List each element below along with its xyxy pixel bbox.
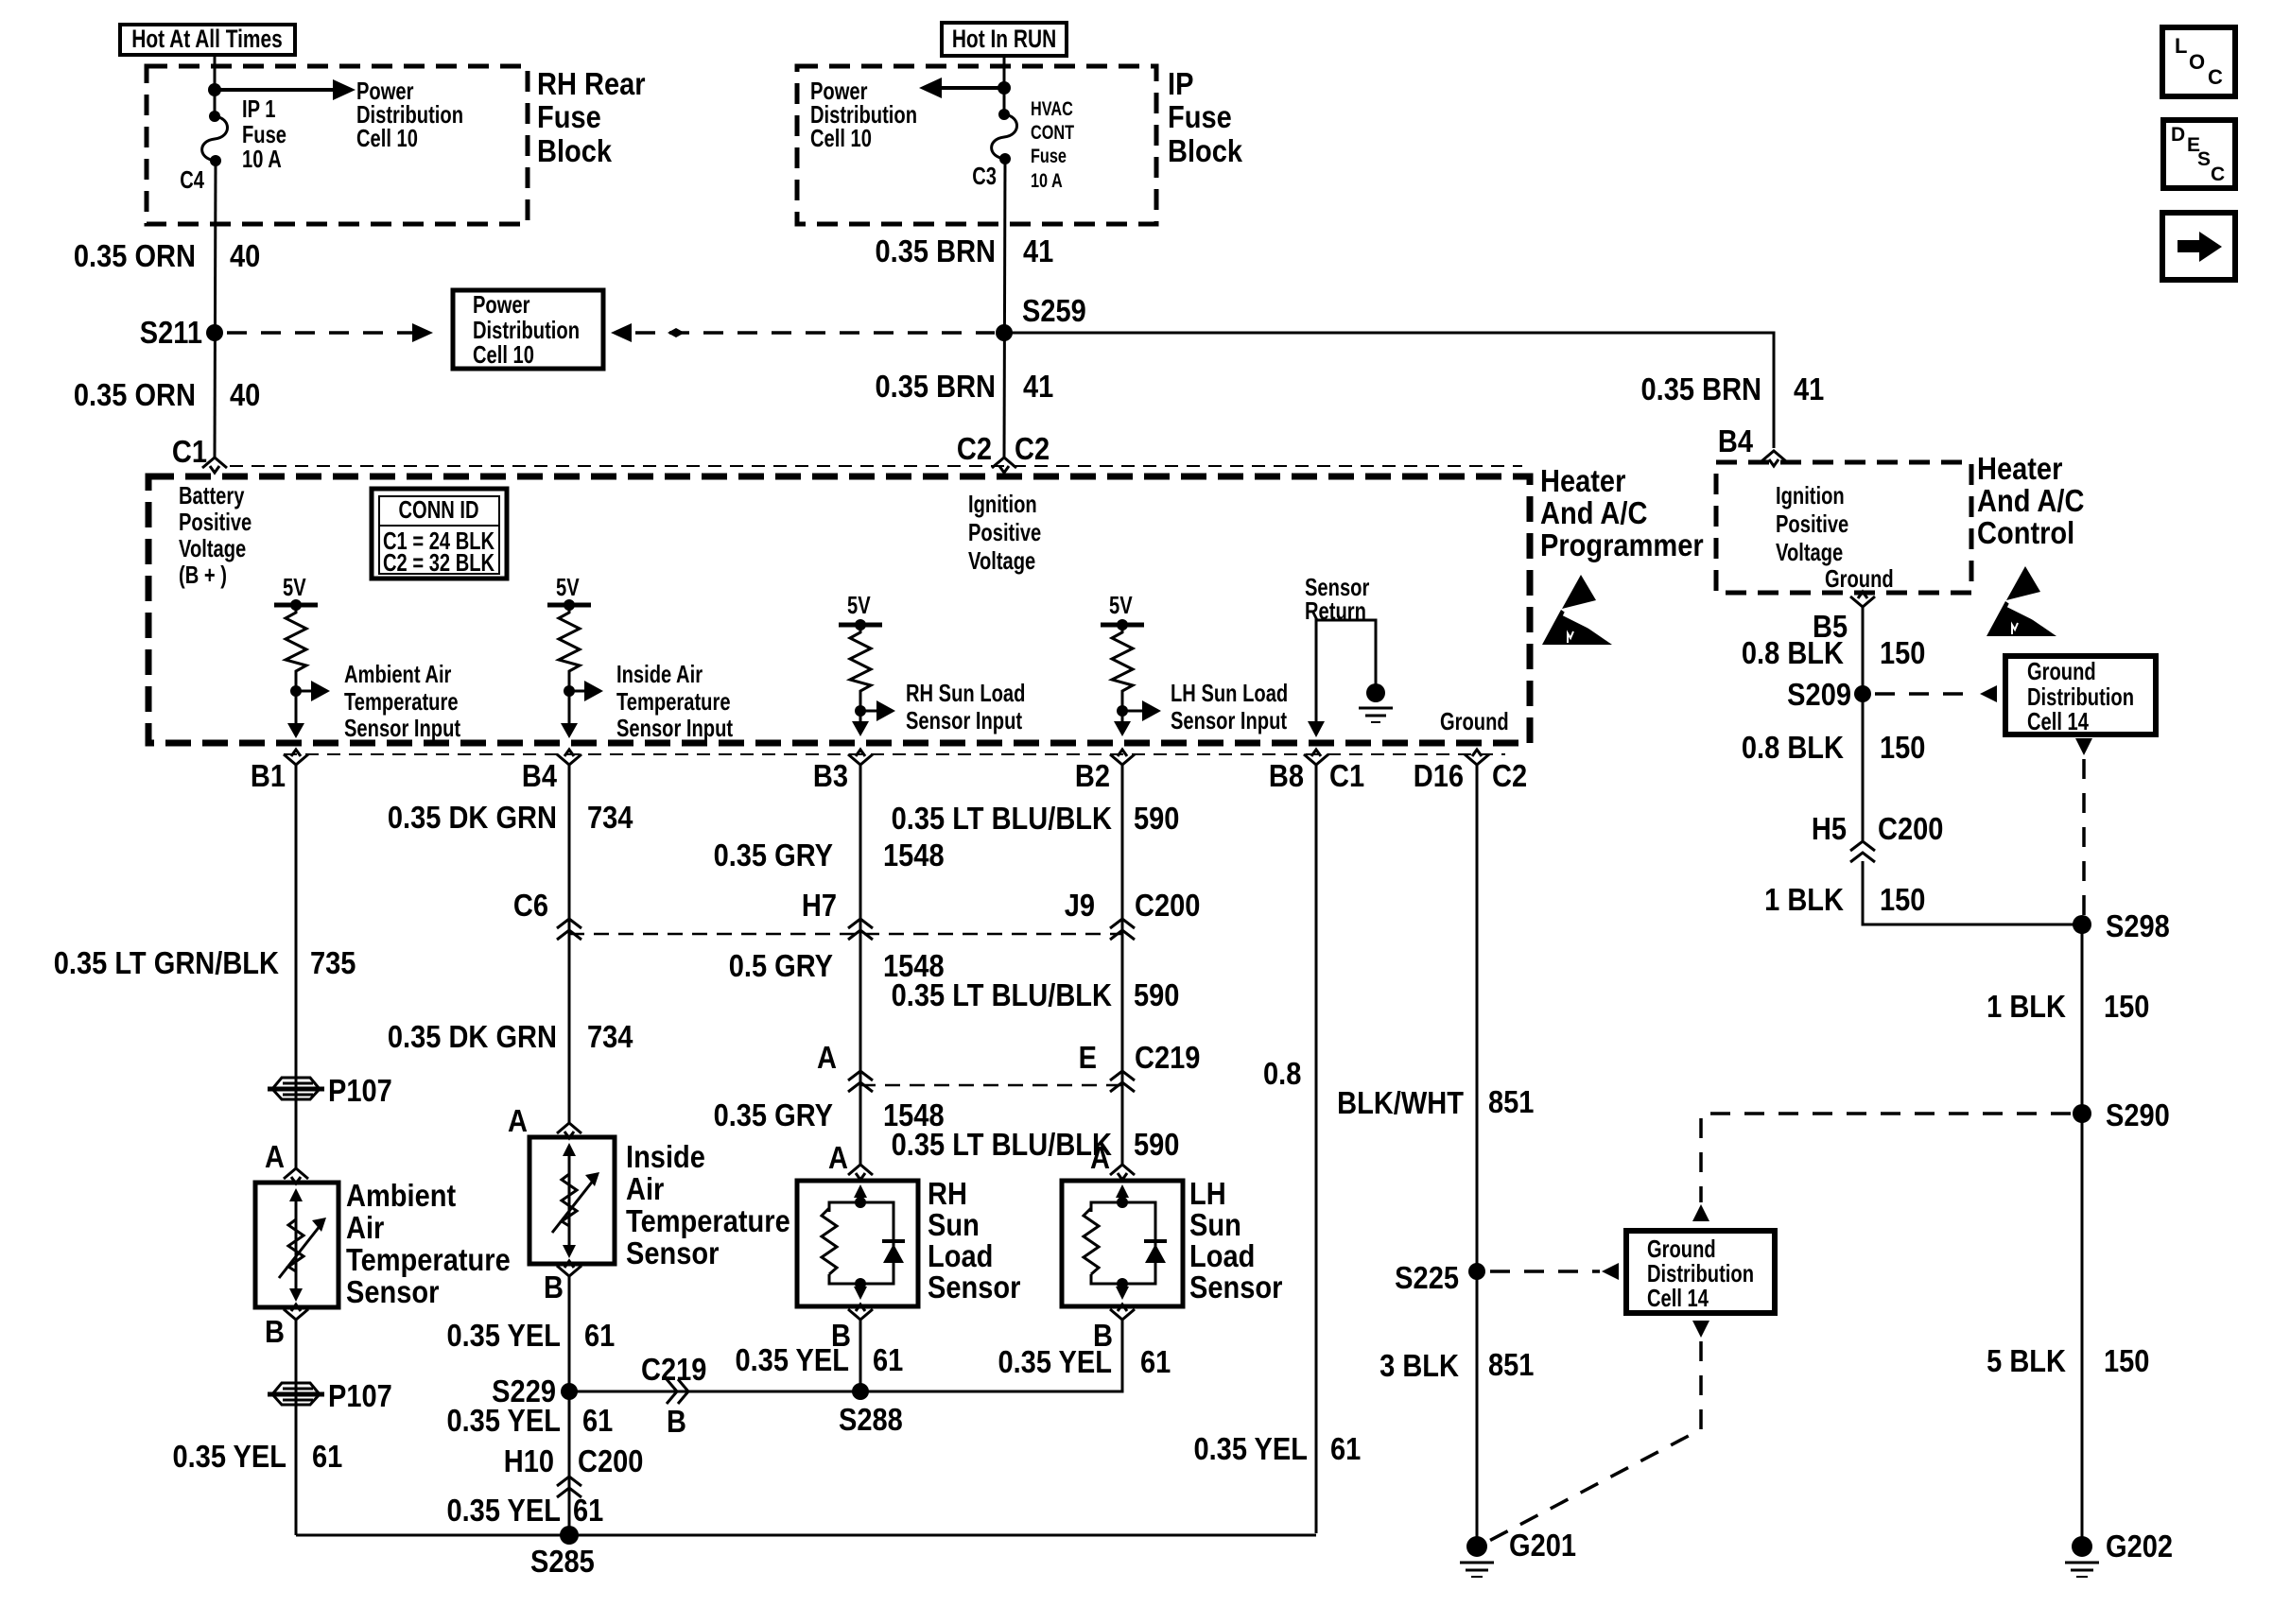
svg-text:C1: C1: [1329, 758, 1364, 793]
Heater And A/C Control dashed box: [1716, 462, 1971, 593]
svg-text:Block: Block: [537, 133, 613, 168]
arrow below upper ground distribution box: [2075, 738, 2092, 755]
svg-text:Power: Power: [473, 291, 529, 319]
svg-text:5V: 5V: [283, 574, 306, 601]
svg-text:Hot In RUN: Hot In RUN: [952, 26, 1056, 54]
connector D16: [1465, 750, 1489, 765]
svg-text:C: C: [2211, 164, 2225, 185]
label "IP Fuse Block": [1168, 66, 1243, 168]
wire inside-air B down to S229/S285: [568, 1274, 571, 1535]
svg-text:5 BLK: 5 BLK: [1987, 1343, 2066, 1378]
svg-text:41: 41: [1023, 369, 1053, 404]
svg-text:150: 150: [1880, 882, 1925, 917]
connector B3: [848, 750, 873, 765]
svg-text:RH Rear: RH Rear: [537, 66, 646, 101]
svg-text:Heater: Heater: [1977, 451, 2062, 486]
DESC button box: [2163, 120, 2235, 188]
wire RH B down to S288: [859, 1318, 862, 1391]
svg-text:Positive: Positive: [968, 519, 1041, 546]
label Inside Air Temperature Sensor: [626, 1139, 790, 1270]
wire to pin with arrow: [287, 691, 304, 738]
svg-text:P107: P107: [328, 1378, 392, 1413]
svg-text:Block: Block: [1168, 133, 1243, 168]
connector C2: [992, 458, 1016, 473]
svg-text:Sensor: Sensor: [626, 1235, 719, 1270]
wire label 0.35 LT BLU/BLK 590 (lower): [892, 1127, 1180, 1162]
svg-text:Sensor Input: Sensor Input: [344, 715, 460, 742]
svg-text:61: 61: [584, 1318, 615, 1353]
svg-text:S209: S209: [1787, 677, 1851, 712]
svg-text:61: 61: [573, 1493, 603, 1528]
wire label 0.35 YEL 61 (below S229): [446, 1403, 613, 1438]
svg-text:Fuse: Fuse: [1031, 145, 1067, 166]
svg-text:RH: RH: [928, 1176, 967, 1211]
wire LH B down and left: [860, 1318, 1122, 1391]
CONN ID table: [372, 489, 507, 579]
arrow above lower ground distribution box: [1692, 1204, 1709, 1221]
svg-text:Distribution: Distribution: [473, 317, 580, 344]
wire label 0.35 LT BLU/BLK 590 (mid): [892, 977, 1180, 1012]
svg-text:Cell 14: Cell 14: [2027, 708, 2089, 735]
wire B2 to LH sun load sensor: [1121, 763, 1124, 1166]
Sensor Return label: [1305, 574, 1369, 625]
wire fuse down to C2 connector: [1004, 159, 1005, 458]
svg-text:0.35 BRN: 0.35 BRN: [1641, 371, 1761, 406]
svg-text:A: A: [828, 1140, 848, 1175]
connector A (B3 wire): [817, 1040, 873, 1092]
svg-text:Sun: Sun: [928, 1207, 980, 1242]
svg-text:Programmer: Programmer: [1540, 527, 1704, 562]
ambient air temperature sensor: [255, 1139, 338, 1349]
RH Rear Fuse Block dashed box: [147, 66, 528, 224]
5V supply: [839, 592, 882, 631]
svg-text:Fuse: Fuse: [537, 99, 601, 134]
svg-text:61: 61: [312, 1439, 342, 1474]
svg-text:A: A: [265, 1139, 285, 1174]
svg-text:Ambient: Ambient: [346, 1178, 456, 1213]
svg-text:10 A: 10 A: [242, 146, 282, 173]
svg-text:1 BLK: 1 BLK: [1764, 882, 1844, 917]
label "Heater And A/C Programmer": [1540, 463, 1704, 562]
dashed reference S211 to Power Distribution box: [227, 323, 433, 342]
svg-text:40: 40: [230, 238, 260, 273]
splice S211: [140, 315, 223, 350]
sensor input arrow: [1122, 700, 1161, 721]
splice P107 (upper): [268, 1073, 392, 1108]
wire label 0.35 DK GRN 734 (lower): [388, 1019, 633, 1054]
label "Power Distribution Cell 10" (RH block): [356, 78, 463, 152]
wire right box ground down: [1862, 605, 1865, 840]
splice S285: [530, 1526, 595, 1579]
connector J9 / C200: [1065, 888, 1201, 940]
ESD symbol (control): [1987, 566, 2065, 636]
wire S298 down to G202: [2081, 924, 2084, 1541]
svg-text:Sensor: Sensor: [346, 1274, 439, 1309]
svg-text:0.8 BLK: 0.8 BLK: [1742, 635, 1845, 670]
sensor return wire: [1316, 620, 1376, 724]
label "Power Distribution Cell 10" (IP block): [810, 78, 917, 152]
svg-text:1 BLK: 1 BLK: [1987, 989, 2066, 1024]
svg-text:LH Sun Load: LH Sun Load: [1171, 680, 1288, 707]
svg-text:Temperature: Temperature: [616, 688, 731, 716]
pin labels C2 C2: [957, 431, 1050, 466]
connector B4: [1761, 451, 1786, 466]
ground symbol (sensor return): [1359, 683, 1393, 722]
svg-text:Positive: Positive: [179, 509, 252, 536]
connector B1: [284, 750, 308, 765]
5V supply: [274, 574, 318, 611]
svg-text:0.35 DK GRN: 0.35 DK GRN: [388, 1019, 557, 1054]
5V supply: [1101, 592, 1144, 631]
svg-text:BLK/WHT: BLK/WHT: [1337, 1085, 1464, 1120]
svg-text:S211: S211: [140, 315, 202, 350]
label LH Sun Load Sensor: [1189, 1176, 1282, 1304]
svg-text:Heater: Heater: [1540, 463, 1625, 498]
svg-text:Cell 10: Cell 10: [356, 125, 418, 152]
wire label 1 BLK 150: [1764, 882, 1925, 917]
svg-text:CONN ID: CONN ID: [398, 496, 478, 524]
svg-text:0.35 BRN: 0.35 BRN: [876, 233, 996, 268]
svg-text:0.35 GRY: 0.35 GRY: [714, 838, 834, 872]
ground G201: [1460, 1528, 1576, 1577]
ESD symbol (programmer): [1542, 575, 1621, 645]
svg-text:Sensor Input: Sensor Input: [1171, 707, 1287, 734]
wire fuse down to C1 connector: [215, 161, 216, 458]
connector C1: [202, 458, 227, 473]
svg-text:Temperature: Temperature: [346, 1242, 511, 1277]
wire label 0.35 BRN 41 (right drop): [1641, 371, 1825, 406]
LH sun load sensor: [1062, 1140, 1183, 1353]
connector H10 / C200: [504, 1443, 644, 1497]
svg-text:Ambient Air: Ambient Air: [344, 661, 451, 688]
svg-text:Ground: Ground: [1440, 708, 1509, 735]
svg-text:C2: C2: [1492, 758, 1527, 793]
svg-text:S259: S259: [1022, 293, 1086, 328]
label "RH Rear Fuse Block": [537, 66, 646, 168]
svg-text:150: 150: [1880, 635, 1925, 670]
svg-text:G201: G201: [1509, 1528, 1576, 1563]
svg-text:Air: Air: [626, 1171, 664, 1206]
svg-text:B: B: [544, 1270, 564, 1304]
label box "Hot At All Times": [120, 25, 295, 55]
wire from Hot In RUN into fuse block: [1003, 56, 1006, 114]
wire B8/C1 sensor return down: [1315, 763, 1318, 1533]
IP Fuse Block dashed box: [797, 66, 1156, 224]
dashed wire to G201: [1489, 1341, 1701, 1541]
svg-text:Fuse: Fuse: [1168, 99, 1232, 134]
svg-text:Sun: Sun: [1189, 1207, 1241, 1242]
svg-text:Cell 10: Cell 10: [473, 341, 534, 369]
wire to pin with arrow: [1114, 711, 1131, 736]
label box "Hot In RUN": [942, 23, 1067, 56]
svg-text:Distribution: Distribution: [2027, 683, 2134, 711]
wire label 0.35 YEL 61 (B8 bottom): [1193, 1431, 1361, 1466]
dashed wire down to S298: [2082, 759, 2086, 917]
svg-text:41: 41: [1023, 233, 1053, 268]
svg-text:B1: B1: [251, 758, 286, 793]
connector C219 / B (in-line): [641, 1352, 706, 1439]
svg-text:851: 851: [1488, 1347, 1534, 1382]
svg-text:590: 590: [1134, 1127, 1179, 1162]
svg-text:H5: H5: [1812, 811, 1847, 846]
svg-text:Ignition: Ignition: [968, 491, 1037, 518]
label "HVAC CONT Fuse 10 A": [1031, 97, 1075, 191]
svg-text:61: 61: [1140, 1344, 1171, 1379]
branch arrow to Power Distribution Cell 10: [215, 79, 356, 100]
svg-text:C2: C2: [1015, 431, 1050, 466]
svg-text:B: B: [667, 1404, 686, 1439]
connector H7: [802, 888, 873, 940]
svg-text:C6: C6: [513, 888, 548, 923]
svg-text:B4: B4: [1718, 423, 1754, 458]
svg-text:851: 851: [1488, 1084, 1534, 1119]
svg-text:C200: C200: [578, 1443, 643, 1478]
wire B3 to RH sun load sensor: [859, 763, 862, 1166]
svg-text:0.35 ORN: 0.35 ORN: [74, 377, 196, 412]
reference box Ground Distribution Cell 14 (lower): [1626, 1231, 1775, 1313]
svg-text:P107: P107: [328, 1073, 392, 1108]
svg-text:LH: LH: [1189, 1176, 1226, 1211]
C219 connector plane dashed line: [860, 1084, 1122, 1087]
svg-text:Sensor: Sensor: [1189, 1270, 1282, 1304]
wire label 0.8 BLK/WHT 851: [1263, 1056, 1534, 1120]
svg-text:S285: S285: [530, 1544, 595, 1579]
LOC button box: [2162, 27, 2235, 96]
svg-text:0.35 YEL: 0.35 YEL: [446, 1493, 561, 1528]
wire label 1 BLK 150 (second): [1987, 989, 2149, 1024]
wire label 0.35 BRN 41 (lower): [876, 369, 1054, 404]
svg-text:H10: H10: [504, 1443, 554, 1478]
wire label 0.35 YEL 61 (above S229): [446, 1318, 615, 1353]
fuse HVAC CONT Fuse 10 A: [992, 109, 1017, 164]
svg-text:0.35 LT GRN/BLK: 0.35 LT GRN/BLK: [54, 945, 280, 980]
svg-text:A: A: [817, 1040, 837, 1075]
svg-text:61: 61: [873, 1342, 903, 1377]
svg-text:C200: C200: [1135, 888, 1200, 923]
wire label 0.35 BRN 41 (upper): [876, 233, 1054, 268]
branch arrow (left) to Power Distribution: [919, 78, 1004, 98]
svg-text:S290: S290: [2106, 1097, 2170, 1132]
svg-text:E: E: [1079, 1040, 1097, 1075]
svg-text:5V: 5V: [1109, 592, 1133, 619]
wire label 5 BLK 150: [1987, 1343, 2149, 1378]
svg-text:C200: C200: [1878, 811, 1943, 846]
svg-text:735: 735: [310, 945, 356, 980]
svg-text:3 BLK: 3 BLK: [1379, 1348, 1459, 1383]
Heater And A/C Programmer dashed box: [148, 476, 1530, 743]
wire label 0.8 BLK 150 (lower): [1742, 730, 1926, 765]
svg-text:B4: B4: [522, 758, 558, 793]
connector B4: [557, 750, 581, 765]
ground G202: [2065, 1529, 2173, 1577]
RH sun load sensor: [797, 1140, 918, 1353]
svg-text:J9: J9: [1065, 888, 1095, 923]
svg-text:S288: S288: [839, 1402, 903, 1437]
splice S225: [1395, 1260, 1485, 1295]
svg-text:Voltage: Voltage: [1776, 539, 1843, 566]
connector plane thin dashed line (top): [230, 465, 1522, 467]
svg-text:590: 590: [1134, 977, 1179, 1012]
wire label 0.35 ORN 40 (upper): [74, 238, 260, 273]
splice S290: [2073, 1097, 2170, 1132]
svg-text:Air: Air: [346, 1210, 384, 1245]
svg-text:0.35 GRY: 0.35 GRY: [714, 1097, 834, 1132]
svg-text:Hot At All Times: Hot At All Times: [131, 26, 283, 54]
svg-text:C1: C1: [172, 434, 207, 469]
svg-text:5V: 5V: [556, 574, 580, 601]
svg-text:A: A: [1090, 1140, 1110, 1175]
wire B1 to ambient sensor: [295, 763, 298, 1169]
dashed reference S209 to ground distribution: [1875, 685, 1997, 702]
splice S259: [996, 293, 1086, 341]
svg-text:L: L: [2175, 34, 2187, 58]
svg-text:C2: C2: [957, 431, 992, 466]
svg-text:0.35 YEL: 0.35 YEL: [998, 1344, 1112, 1379]
svg-text:590: 590: [1134, 801, 1179, 836]
svg-text:0.8: 0.8: [1263, 1056, 1301, 1091]
svg-text:(B + ): (B + ): [179, 561, 227, 589]
svg-text:0.35 YEL: 0.35 YEL: [446, 1318, 561, 1353]
svg-text:Sensor: Sensor: [928, 1270, 1020, 1304]
wire D16/C2 ground down: [1476, 763, 1479, 1541]
label Ambient Air Temperature Sensor: [346, 1178, 511, 1309]
svg-text:Control: Control: [1977, 515, 2074, 550]
svg-text:O: O: [2189, 50, 2205, 74]
svg-text:Ignition: Ignition: [1776, 482, 1845, 510]
svg-text:0.8 BLK: 0.8 BLK: [1742, 730, 1845, 765]
svg-text:C3: C3: [972, 163, 997, 190]
wire ambient B down: [295, 1318, 298, 1535]
svg-text:61: 61: [582, 1403, 613, 1438]
svg-text:0.35 YEL: 0.35 YEL: [446, 1403, 561, 1438]
svg-text:B: B: [265, 1314, 285, 1349]
svg-text:0.35 YEL: 0.35 YEL: [735, 1342, 849, 1377]
wire label 0.35 YEL 61 (above S285): [446, 1493, 603, 1528]
junction node: [208, 83, 221, 96]
svg-text:And A/C: And A/C: [1977, 483, 2084, 518]
wire label 0.35 YEL 61 (RH B): [735, 1342, 903, 1377]
5V supply: [547, 574, 591, 611]
connector E / C219: [1079, 1040, 1201, 1092]
svg-text:Battery: Battery: [179, 482, 244, 510]
resistor element: [1112, 625, 1133, 711]
svg-text:Ground: Ground: [1825, 565, 1894, 593]
svg-text:G202: G202: [2106, 1529, 2173, 1564]
svg-text:Cell 14: Cell 14: [1647, 1285, 1709, 1312]
reference box Power Distribution Cell 10: [453, 290, 603, 369]
wire label 3 BLK 851: [1379, 1347, 1534, 1383]
svg-text:C: C: [2208, 65, 2223, 89]
svg-text:B3: B3: [813, 758, 848, 793]
svg-text:Temperature: Temperature: [626, 1203, 790, 1238]
svg-text:Ground: Ground: [2027, 658, 2096, 685]
connector plane thin dashed line (bottom): [284, 753, 1505, 755]
svg-text:S: S: [2197, 148, 2211, 170]
svg-text:Load: Load: [928, 1238, 993, 1273]
svg-text:150: 150: [2104, 989, 2149, 1024]
svg-text:1548: 1548: [883, 838, 945, 872]
fuse IP 1 Fuse 10 A: [202, 111, 228, 166]
label "Ignition Positive Voltage" (right box): [1776, 482, 1848, 566]
splice S298: [2073, 908, 2170, 943]
splice S229 and wire to C219: [569, 1391, 860, 1393]
svg-text:Load: Load: [1189, 1238, 1255, 1273]
svg-text:0.35 YEL: 0.35 YEL: [1193, 1431, 1308, 1466]
svg-text:Temperature: Temperature: [344, 688, 459, 716]
label RH Sun Load Sensor: [928, 1176, 1020, 1304]
svg-text:0.5 GRY: 0.5 GRY: [729, 948, 834, 983]
svg-text:0.35 YEL: 0.35 YEL: [172, 1439, 286, 1474]
svg-text:10 A: 10 A: [1031, 169, 1063, 191]
resistor element: [850, 625, 871, 711]
wire label 0.35 LT BLU/BLK 590 (top): [892, 801, 1180, 836]
svg-text:B8: B8: [1269, 758, 1304, 793]
svg-text:734: 734: [587, 1019, 633, 1054]
svg-text:Cell 10: Cell 10: [810, 125, 872, 152]
connector Ground (right box): [1850, 592, 1875, 607]
connector B8: [1304, 750, 1328, 765]
label "IP 1 Fuse 10 A": [242, 95, 286, 173]
svg-text:150: 150: [2104, 1343, 2149, 1378]
connector H5 / C200: [1812, 811, 1944, 862]
resistor element: [559, 605, 580, 691]
svg-text:And A/C: And A/C: [1540, 495, 1647, 530]
label "Ignition Positive Voltage" (middle): [968, 491, 1041, 575]
inside air temperature sensor: [508, 1103, 615, 1304]
dashed reference S259 to Power Distribution box with left arrow: [611, 323, 995, 342]
C200 connector plane dashed line: [569, 933, 1122, 936]
svg-text:0.35 BRN: 0.35 BRN: [876, 369, 996, 404]
svg-text:734: 734: [587, 800, 633, 835]
wire label 0.35 LT GRN/BLK 735: [54, 945, 356, 980]
svg-text:C4: C4: [180, 166, 204, 194]
svg-text:Sensor Input: Sensor Input: [616, 715, 733, 742]
wire label 0.35 ORN 40 (lower): [74, 377, 260, 412]
wire B4 to inside air sensor: [568, 763, 571, 1123]
svg-text:Ground: Ground: [1647, 1235, 1716, 1263]
reference box Ground Distribution Cell 14 (upper): [2005, 656, 2156, 735]
svg-text:IP: IP: [1168, 66, 1193, 101]
wire label 0.35 GRY 1548 (upper): [714, 838, 945, 872]
wire label 0.35 YEL 61 (LH B): [998, 1344, 1171, 1379]
svg-text:61: 61: [1330, 1431, 1361, 1466]
wire to pin with arrow: [852, 711, 869, 736]
svg-text:CONT: CONT: [1031, 121, 1075, 143]
svg-text:Inside: Inside: [626, 1139, 705, 1174]
svg-text:40: 40: [230, 377, 260, 412]
svg-text:0.35 LT BLU/BLK: 0.35 LT BLU/BLK: [892, 977, 1113, 1012]
svg-text:Inside Air: Inside Air: [616, 661, 703, 688]
svg-text:B2: B2: [1075, 758, 1110, 793]
arrow button box: [2162, 213, 2235, 280]
svg-text:S225: S225: [1395, 1260, 1459, 1295]
wire label 0.5 GRY 1548: [729, 948, 945, 983]
connector C6: [513, 888, 581, 940]
wire label 0.35 GRY 1548 (lower): [714, 1097, 945, 1132]
svg-text:Fuse: Fuse: [242, 121, 286, 148]
wire label 0.35 YEL 61 (B1 bottom): [172, 1439, 342, 1474]
label "Battery Positive Voltage (B+)": [179, 482, 252, 589]
svg-text:5V: 5V: [847, 592, 871, 619]
svg-text:Distribution: Distribution: [1647, 1260, 1754, 1287]
wire to pin with arrow: [561, 691, 578, 738]
svg-text:C219: C219: [641, 1352, 706, 1387]
svg-text:D: D: [2171, 124, 2185, 146]
svg-text:Positive: Positive: [1776, 510, 1848, 538]
wire label 0.35 DK GRN 734 (upper): [388, 800, 633, 835]
svg-text:Voltage: Voltage: [968, 547, 1035, 575]
wire H5 down to S298: [1863, 861, 2082, 924]
